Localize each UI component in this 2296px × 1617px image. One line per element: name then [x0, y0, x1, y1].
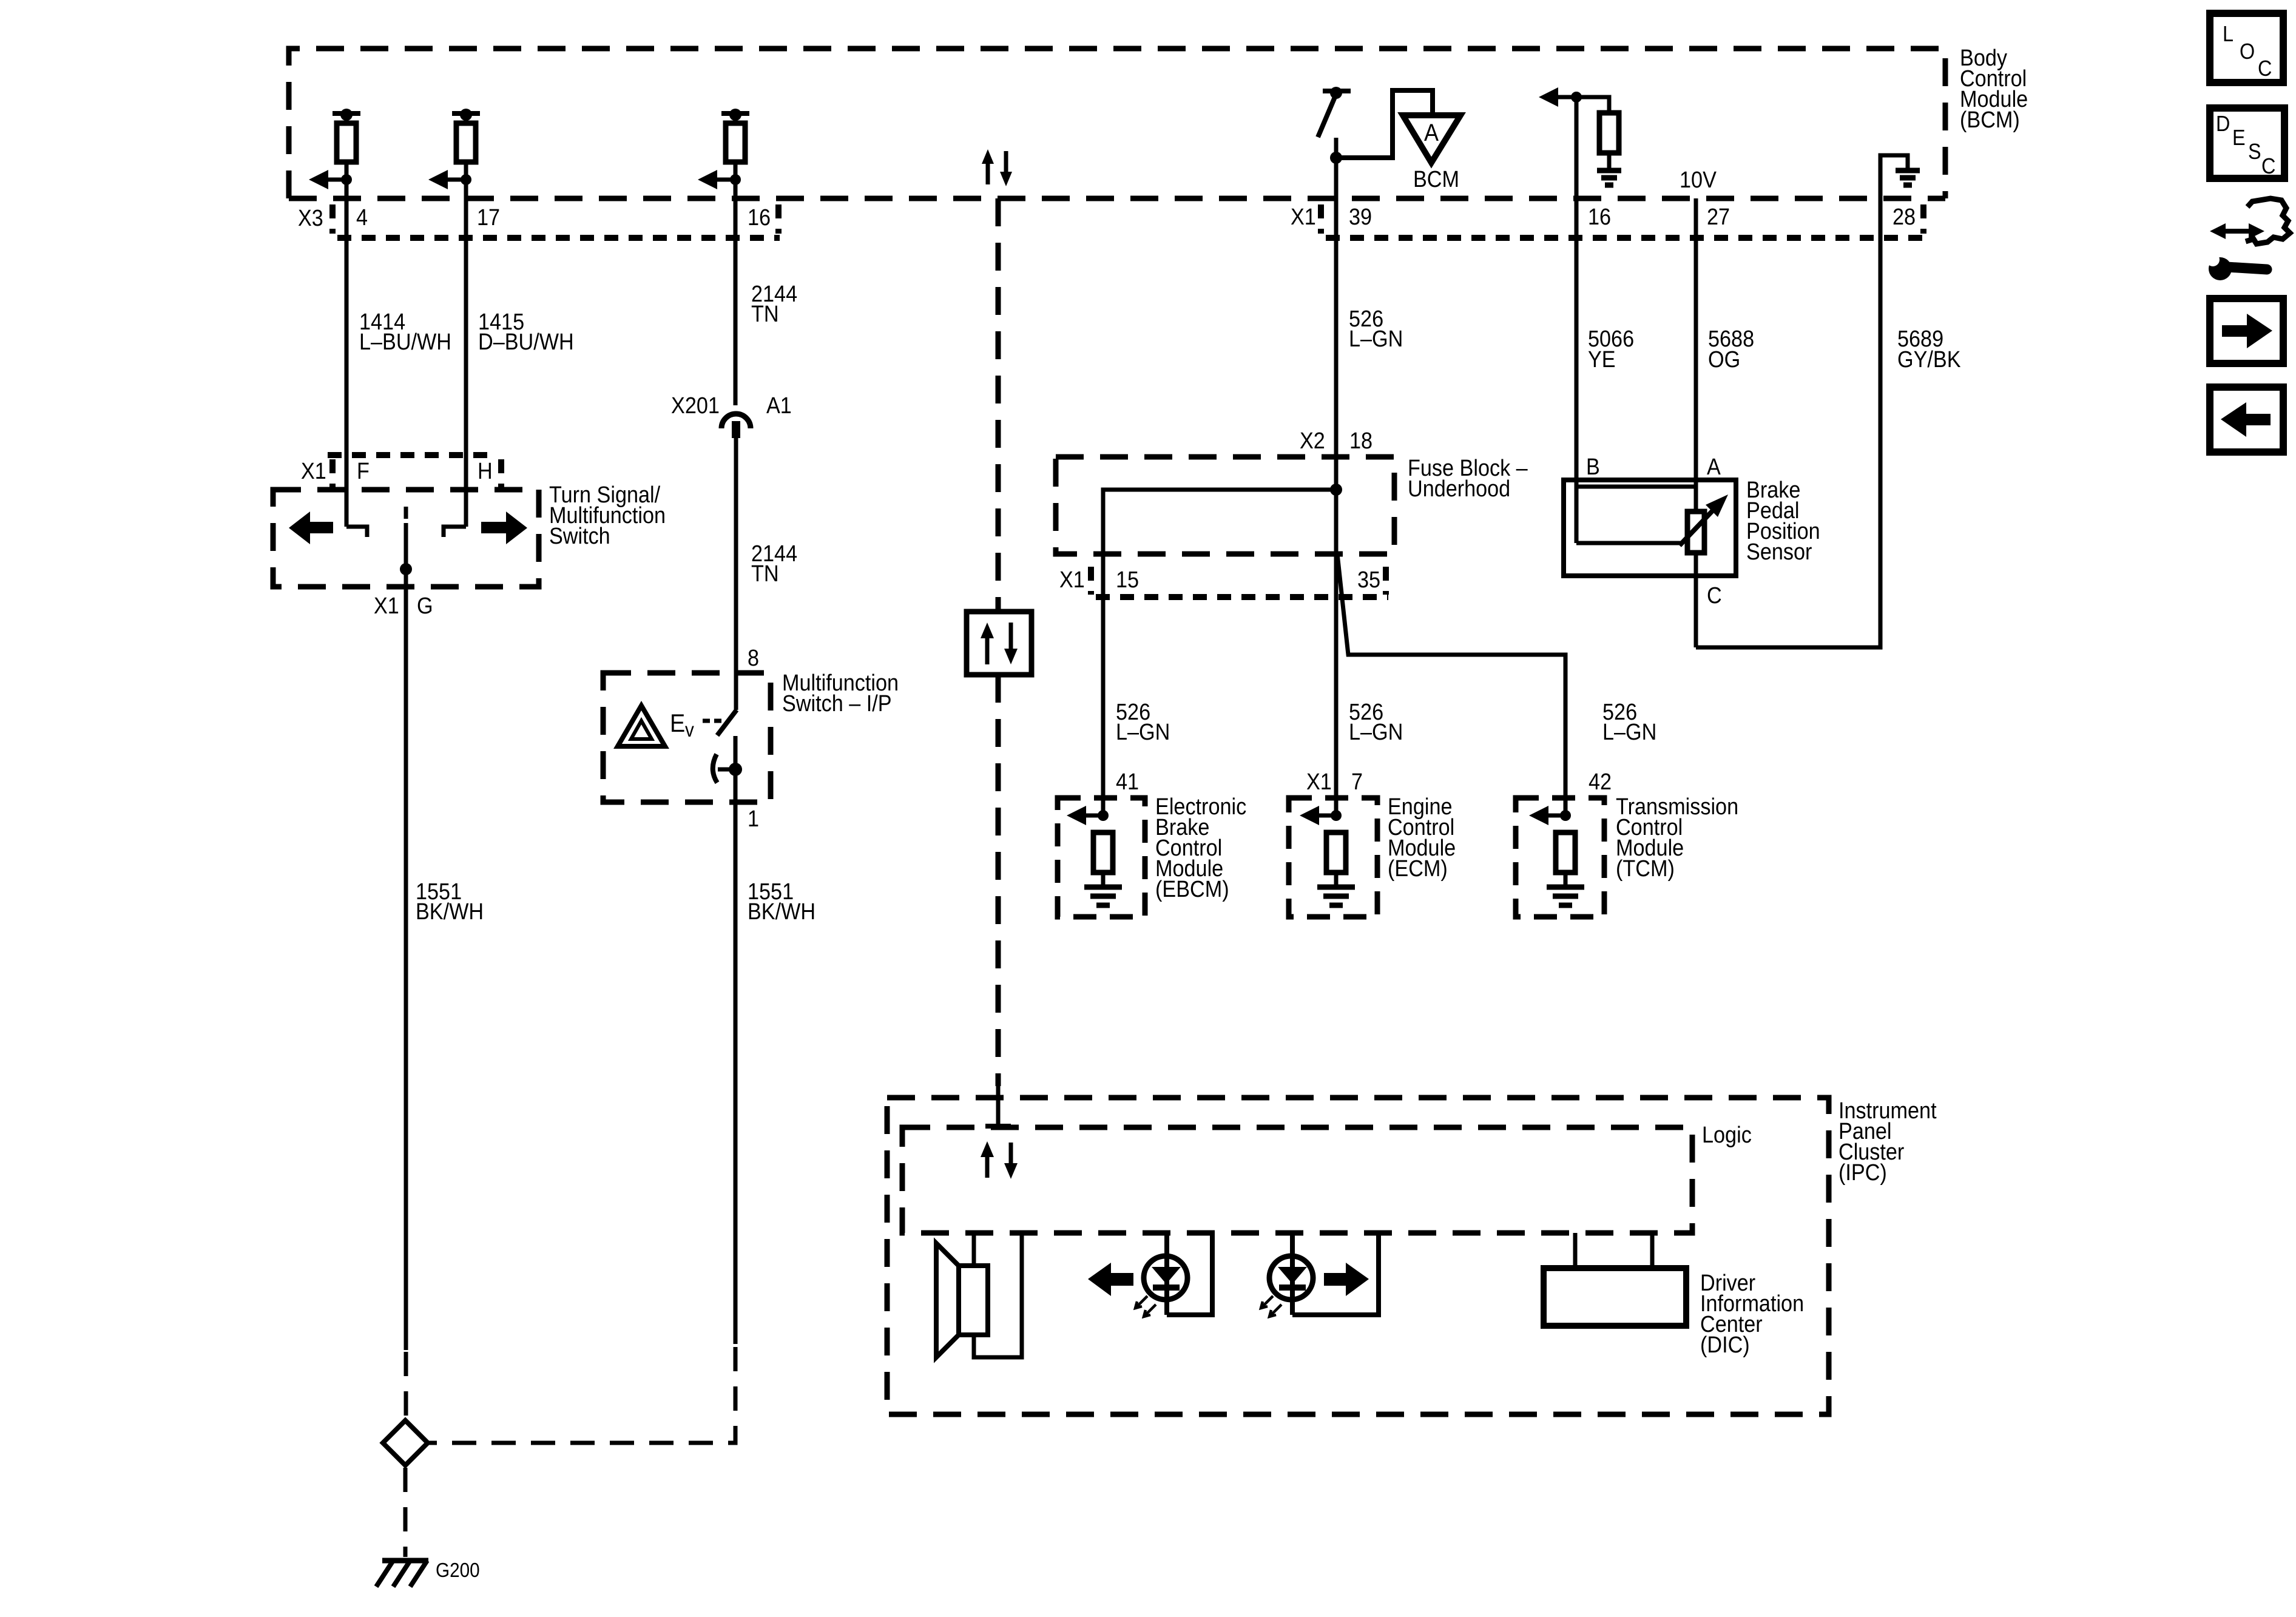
svg-text:27: 27	[1707, 204, 1730, 230]
svg-text:O: O	[2240, 39, 2255, 64]
svg-text:16: 16	[1588, 204, 1611, 230]
inline connector X201 A1	[671, 393, 792, 438]
ground symbol (inside BCM, pin28 branch)	[1880, 155, 1920, 200]
svg-text:BK/WH: BK/WH	[416, 899, 484, 925]
serial data up/down arrows inside BCM	[982, 149, 1012, 186]
svg-text:8: 8	[748, 646, 759, 671]
svg-text:17: 17	[477, 205, 500, 231]
svg-text:A: A	[1707, 454, 1721, 480]
branch wire to TCM (pin 35)	[1337, 554, 1565, 818]
splice inside fuse block	[1103, 484, 1342, 818]
svg-text:Switch – I/P: Switch – I/P	[782, 691, 892, 717]
svg-text:16: 16	[748, 205, 771, 231]
svg-text:(EBCM): (EBCM)	[1155, 877, 1229, 902]
svg-text:L–GN: L–GN	[1116, 720, 1170, 745]
hazard warning triangle icon	[618, 706, 665, 746]
svg-text:Logic: Logic	[1702, 1122, 1752, 1148]
hazard switch name text	[782, 670, 899, 717]
potentiometer element	[1687, 511, 1704, 553]
X2 18 connector labels (fuse block top)	[1300, 428, 1373, 454]
svg-text:E: E	[670, 709, 685, 737]
Engine Control Module (ECM) dashed box	[1289, 798, 1377, 917]
Transmission Control Module (TCM) dashed box	[1516, 798, 1604, 917]
ECM name text	[1388, 794, 1456, 882]
wire 1551 BK/WH (right, hazard to splice)	[734, 802, 738, 1344]
right turn block arrow	[481, 511, 527, 544]
right indicator block arrow	[1324, 1263, 1369, 1296]
svg-text:Switch: Switch	[549, 524, 610, 549]
left turn indicator LED	[1144, 1233, 1212, 1315]
svg-text:4: 4	[356, 205, 368, 231]
svg-text:X1: X1	[1306, 769, 1332, 795]
wire label 5689 GY/BK	[1897, 326, 1961, 373]
svg-text:10V: 10V	[1680, 167, 1717, 193]
svg-text:L–GN: L–GN	[1602, 720, 1656, 745]
svg-text:F: F	[357, 459, 370, 484]
arrow out pin17	[428, 170, 471, 189]
svg-text:A1: A1	[766, 393, 792, 419]
flasher switch inside BCM	[1318, 87, 1351, 160]
chassis ground G200	[376, 1559, 480, 1587]
svg-text:35: 35	[1357, 567, 1380, 593]
svg-text:L–GN: L–GN	[1349, 720, 1403, 745]
svg-text:15: 15	[1116, 567, 1139, 593]
wire label 526 L-GN (to ECM)	[1349, 700, 1403, 745]
right LED light emission arrows	[1261, 1296, 1281, 1317]
back arrow box icon	[2210, 387, 2283, 452]
svg-text:X201: X201	[671, 393, 720, 419]
svg-text:41: 41	[1116, 769, 1139, 795]
svg-text:Underhood: Underhood	[1408, 476, 1510, 502]
resistor + ground near pin16 X1	[1539, 87, 1619, 169]
left LED light emission arrows	[1135, 1296, 1156, 1317]
svg-text:B: B	[1586, 454, 1600, 480]
wire label 1414 L-BU/WH	[359, 309, 451, 355]
EBCM input arrow	[1067, 806, 1109, 825]
wire A through pot to C	[1694, 553, 1698, 647]
svg-text:S: S	[2248, 139, 2261, 164]
turn signal connector X1 F/H row	[301, 455, 501, 487]
wire 1414 L-BU/WH (pin4 to F)	[345, 180, 349, 527]
svg-text:D: D	[2216, 111, 2230, 136]
harness repair icon (double arrow, outline, wrench)	[2206, 198, 2290, 280]
Multifunction Switch - I/P dashed box	[603, 673, 771, 802]
left indicator block arrow	[1088, 1263, 1133, 1296]
wire label 526 L-GN (upper)	[1349, 306, 1403, 352]
wire 1551 BK/WH (left, G to splice)	[404, 589, 408, 1350]
lower contact and second pole hook	[713, 736, 742, 805]
wire 526 L-GN (BCM pin39 down to ECM)	[1334, 160, 1339, 818]
ECM ground	[1317, 887, 1355, 905]
up/down arrows inside logic box	[981, 1141, 1018, 1179]
splice diamond S-node	[383, 1420, 428, 1465]
Logic inner dashed box	[902, 1127, 1692, 1233]
ECM resistor	[1326, 832, 1346, 886]
Fuse Block - Underhood dashed box	[1056, 457, 1394, 554]
svg-text:Sensor: Sensor	[1746, 539, 1812, 565]
EBCM name text	[1155, 794, 1246, 902]
ground symbol (inside BCM, pin16 branch)	[1597, 170, 1621, 185]
wire label 1551 BK/WH (right)	[748, 879, 815, 925]
X1 connector row (BCM): labels and dotted line	[1291, 204, 1930, 238]
LOC box icon	[2210, 13, 2283, 83]
svg-text:X1: X1	[374, 593, 399, 619]
wire 2144 TN upper (pin16 to X201)	[734, 180, 738, 405]
svg-text:(ECM): (ECM)	[1388, 856, 1448, 882]
Turn Signal/Multifunction Switch dashed box	[273, 490, 539, 587]
svg-text:G200: G200	[436, 1559, 480, 1581]
serial data dashed line (data box to IPC)	[996, 675, 1001, 1086]
Ev actuator label	[670, 709, 721, 741]
svg-text:18: 18	[1349, 428, 1373, 454]
DESC box icon	[2210, 108, 2284, 178]
TCM name text	[1616, 794, 1738, 882]
svg-text:39: 39	[1349, 204, 1372, 230]
svg-text:D–BU/WH: D–BU/WH	[478, 329, 574, 355]
svg-text:X2: X2	[1300, 428, 1325, 454]
Brake Pedal Position Sensor solid box	[1564, 480, 1736, 576]
svg-text:C: C	[2258, 56, 2272, 81]
wire label 2144 TN (upper)	[751, 282, 797, 327]
svg-text:BK/WH: BK/WH	[748, 899, 815, 925]
wire label 526 L-GN (to EBCM)	[1116, 700, 1170, 745]
BCM module name text	[1960, 46, 2028, 133]
sensor internal link	[1576, 487, 1696, 543]
serial data dashed line (BCM to data box)	[996, 198, 1001, 612]
svg-text:(DIC): (DIC)	[1700, 1332, 1750, 1358]
svg-text:OG: OG	[1708, 347, 1740, 373]
X1 G connector labels	[374, 593, 433, 619]
ECM input arrow	[1300, 806, 1342, 825]
IPC name text	[1838, 1098, 1937, 1186]
svg-text:TN: TN	[751, 561, 779, 587]
svg-text:X3: X3	[298, 206, 323, 231]
left turn block arrow	[289, 511, 333, 544]
svg-text:(TCM): (TCM)	[1616, 856, 1675, 882]
data link box with up/down arrows	[967, 612, 1032, 675]
svg-text:YE: YE	[1588, 347, 1616, 373]
svg-text:C: C	[1707, 583, 1722, 609]
dashed wire to ground	[403, 1468, 408, 1557]
wire 5066 YE (pin16 to B)	[1575, 97, 1579, 543]
switch common pole	[400, 507, 412, 589]
svg-text:28: 28	[1893, 204, 1916, 230]
right turn indicator LED	[1269, 1233, 1379, 1315]
Body Control Module (BCM) dashed box	[289, 49, 1945, 198]
TCM ground	[1547, 887, 1584, 905]
svg-text:E: E	[2232, 125, 2246, 150]
turn signal switch name text	[549, 482, 666, 549]
TCM resistor	[1556, 832, 1575, 886]
svg-text:(BCM): (BCM)	[1960, 107, 2020, 133]
svg-text:(IPC): (IPC)	[1838, 1160, 1887, 1186]
svg-text:7: 7	[1351, 769, 1363, 795]
wire label 5066 YE	[1588, 326, 1634, 373]
wire 5689 GY/BK (pin28 to C)	[1696, 198, 1880, 647]
node to triangle A	[1330, 90, 1433, 164]
TCM input arrow	[1529, 806, 1571, 825]
op-amp style triangle A (BCM driver)	[1403, 115, 1460, 192]
svg-text:TN: TN	[751, 302, 779, 327]
X3 connector row: labels and dotted line	[298, 204, 780, 238]
svg-text:42: 42	[1589, 769, 1612, 795]
svg-text:A: A	[1424, 120, 1439, 146]
Electronic Brake Control Module (EBCM) dashed box	[1058, 798, 1145, 917]
F contact hook	[346, 527, 367, 537]
fuse block X1 connector row	[1059, 567, 1388, 597]
wire label 526 L-GN (to TCM)	[1602, 700, 1656, 745]
svg-text:C: C	[2261, 154, 2275, 178]
arrow out pin4	[309, 170, 352, 189]
forward arrow box icon	[2210, 299, 2283, 363]
fuse block name text	[1408, 456, 1528, 502]
svg-text:v: v	[685, 718, 694, 741]
resistor assembly pin16 (X3)	[721, 109, 749, 182]
svg-text:X1: X1	[1059, 567, 1085, 593]
Driver Information Center (DIC) box	[1544, 1233, 1686, 1326]
Instrument Panel Cluster (IPC) dashed box	[887, 1098, 1829, 1414]
svg-text:X1: X1	[1291, 204, 1316, 230]
EBCM ground	[1084, 887, 1122, 905]
H contact hook	[444, 527, 466, 537]
svg-text:G: G	[417, 593, 433, 619]
svg-text:L–GN: L–GN	[1349, 326, 1403, 352]
svg-text:BCM: BCM	[1413, 167, 1459, 192]
DIC name text	[1700, 1271, 1804, 1358]
sensor name text	[1746, 478, 1820, 565]
svg-text:L–BU/WH: L–BU/WH	[359, 329, 451, 355]
wire 5688 OG (10V pin27 to A)	[1694, 198, 1698, 513]
EBCM resistor	[1093, 832, 1113, 886]
wiper arrow	[1680, 495, 1728, 545]
svg-text:1: 1	[748, 806, 759, 832]
svg-text:X1: X1	[301, 459, 326, 484]
svg-text:L: L	[2223, 21, 2234, 46]
wire label 1415 D-BU/WH	[478, 309, 574, 355]
wire 1415 D-BU/WH (pin17 to H)	[464, 180, 468, 527]
svg-text:H: H	[478, 459, 493, 484]
hazard switch blade	[717, 710, 737, 735]
wire label 5688 OG	[1708, 326, 1754, 373]
wire 2144 TN lower (X201 to hazard switch)	[734, 438, 738, 710]
arrow out pin16	[698, 170, 741, 189]
wire label 1551 BK/WH (left)	[416, 879, 484, 925]
resistor assembly pin4 (coil feed)	[333, 109, 360, 182]
X1 7 labels (ECM)	[1306, 769, 1363, 795]
resistor assembly pin17	[452, 109, 480, 182]
dashed wire tails to splice	[406, 1347, 735, 1443]
wire label 2144 TN (lower)	[751, 541, 797, 587]
svg-text:GY/BK: GY/BK	[1897, 347, 1961, 373]
chime speaker symbol	[936, 1233, 1022, 1357]
